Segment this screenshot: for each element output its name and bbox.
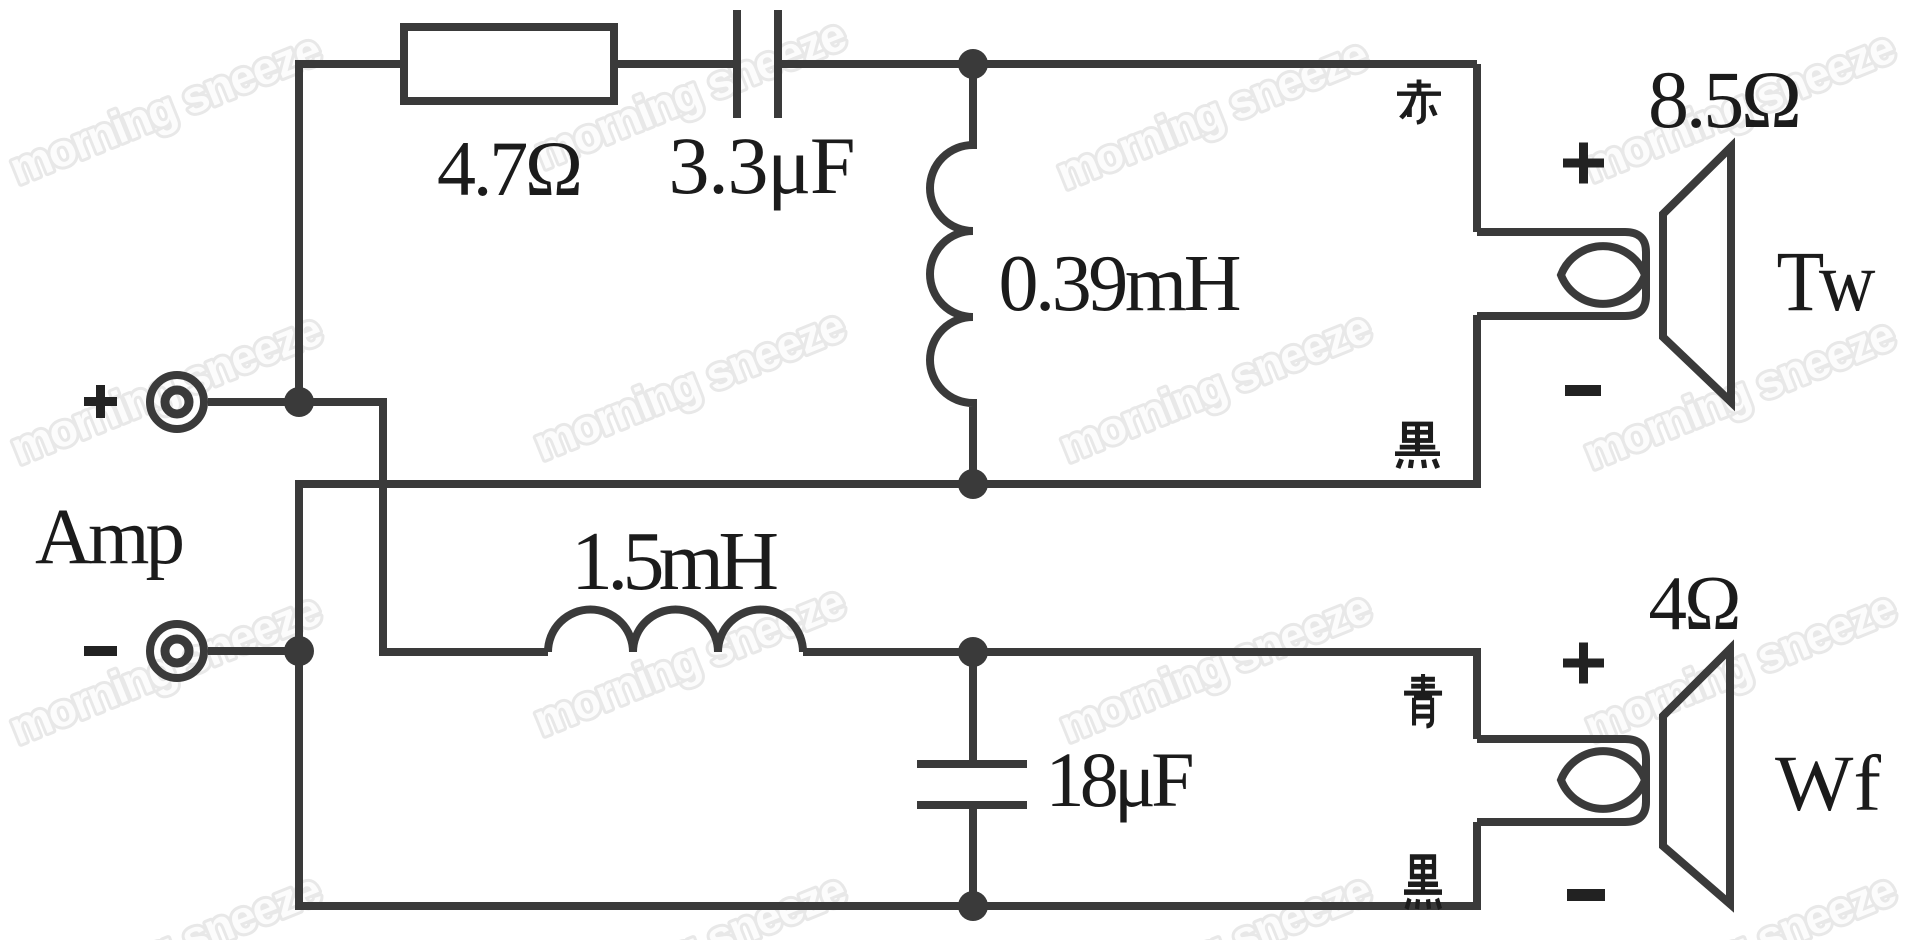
svg-text:1.5mH: 1.5mH bbox=[571, 515, 779, 608]
plus sign amp bbox=[84, 385, 117, 418]
minus sign tweeter bbox=[1565, 385, 1601, 396]
capacitor C2 plate top bbox=[917, 760, 1027, 768]
minus sign amp bbox=[84, 646, 117, 656]
wire return rail tweeter bbox=[299, 315, 1477, 906]
wire tweeter + feed bbox=[1473, 64, 1481, 232]
svg-text:18μF: 18μF bbox=[1046, 736, 1195, 823]
svg-text:Tw: Tw bbox=[1777, 233, 1876, 329]
inductor L1 0.39mH bbox=[930, 64, 973, 484]
svg-text:Amp: Amp bbox=[35, 494, 185, 581]
tweeter terminal + bbox=[1477, 232, 1646, 316]
binding post - bbox=[150, 624, 299, 678]
capacitor C2 lead bottom bbox=[969, 809, 977, 906]
wire inductor to woofer bbox=[803, 652, 1477, 739]
kanji black (kuro) woofer bbox=[1404, 857, 1442, 909]
wire resistor to capacitor bbox=[614, 60, 734, 68]
junction node + post bbox=[284, 387, 314, 417]
capacitor C2 18uF lead top bbox=[969, 652, 977, 760]
inductor L2 1.5mH bbox=[548, 610, 803, 653]
plus sign woofer bbox=[1563, 643, 1604, 684]
wire + post to top rail bbox=[299, 64, 404, 402]
woofer terminal + bbox=[1477, 739, 1646, 822]
kanji blue (ao) woofer bbox=[1404, 674, 1442, 726]
wire + junction to woofer branch bbox=[299, 402, 548, 652]
woofer cone bbox=[1663, 649, 1730, 904]
svg-text:Wf: Wf bbox=[1775, 741, 1882, 828]
capacitor C1 plate left bbox=[733, 10, 741, 118]
junction node woofer feed bbox=[958, 637, 988, 667]
tweeter cone bbox=[1663, 147, 1731, 402]
wire capacitor to tweeter column bbox=[781, 60, 1477, 68]
plus sign tweeter bbox=[1563, 143, 1604, 184]
svg-text:4.7Ω: 4.7Ω bbox=[437, 125, 583, 212]
kanji red (aka) tweeter bbox=[1397, 80, 1441, 123]
resistor R1 4.7ohm bbox=[404, 27, 614, 101]
junction node top rail bbox=[958, 49, 988, 79]
svg-text:3.3μF: 3.3μF bbox=[669, 120, 856, 211]
woofer voice coil bbox=[1561, 751, 1645, 809]
svg-text:0.39mH: 0.39mH bbox=[999, 240, 1242, 328]
kanji black (kuro) tweeter bbox=[1395, 424, 1440, 468]
binding post + bbox=[150, 375, 299, 429]
svg-text:4Ω: 4Ω bbox=[1649, 560, 1742, 646]
tweeter voice coil bbox=[1561, 246, 1645, 304]
capacitor C2 plate bottom bbox=[917, 801, 1027, 809]
junction node return rail bbox=[958, 469, 988, 499]
capacitor C1 plate right bbox=[774, 10, 782, 118]
junction node bottom rail bbox=[958, 891, 988, 921]
svg-text:8.5Ω: 8.5Ω bbox=[1648, 54, 1802, 145]
junction node - post bbox=[284, 636, 314, 666]
minus sign woofer bbox=[1567, 889, 1605, 901]
